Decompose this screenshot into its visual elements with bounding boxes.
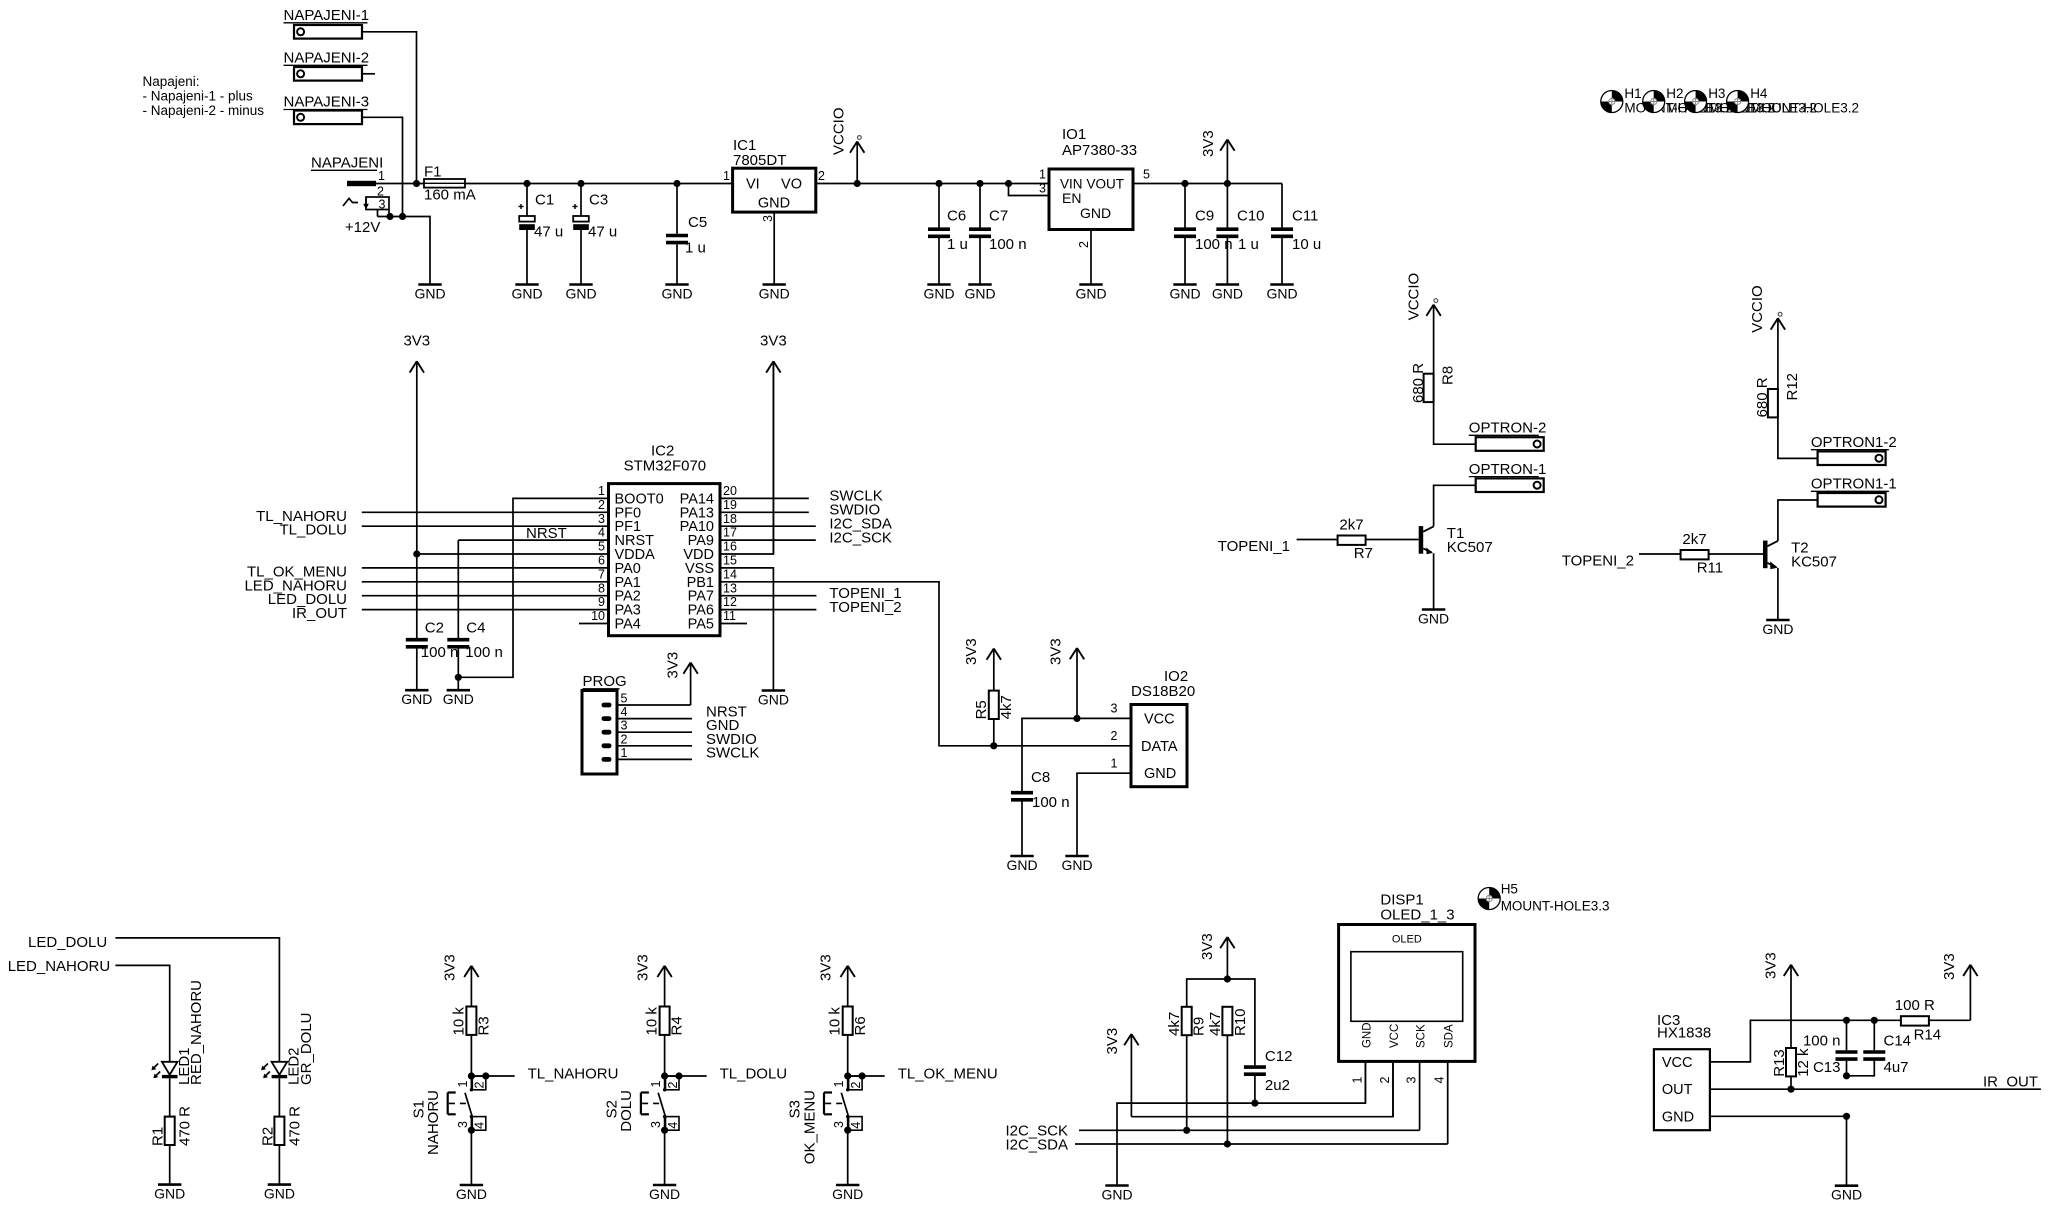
capacitor C11 <box>1281 184 1283 228</box>
resistor R2 <box>274 1117 284 1145</box>
svg-text:TL_DOLU: TL_DOLU <box>720 1066 788 1083</box>
wire SWCLK <box>720 497 809 499</box>
wire IO1 VOUT to 3V3 rail <box>1133 183 1282 185</box>
svg-text:KC507: KC507 <box>1791 554 1837 571</box>
svg-text:3V3: 3V3 <box>760 332 787 349</box>
IC1 pin 3 wire <box>773 212 775 284</box>
svg-text:2k7: 2k7 <box>1339 516 1363 533</box>
svg-text:NAPAJENI-2: NAPAJENI-2 <box>284 50 370 67</box>
receiver IC3 HX1838 box <box>1654 1049 1710 1130</box>
capacitor C9 <box>1184 184 1186 228</box>
junction C14-VCC <box>1871 1017 1878 1024</box>
svg-text:H3: H3 <box>1708 86 1725 101</box>
svg-text:C4: C4 <box>466 619 485 636</box>
junction main-C5 <box>673 180 680 187</box>
svg-text:VCCIO: VCCIO <box>1405 273 1422 321</box>
svg-text:GND: GND <box>1762 621 1793 637</box>
wire PROG pin5 to 3V3 <box>617 704 691 706</box>
wire T1 emitter to ground <box>1433 554 1435 610</box>
capacitor C1 <box>526 184 528 217</box>
svg-text:TL_NAHORU: TL_NAHORU <box>528 1066 619 1083</box>
svg-text:R2: R2 <box>259 1127 276 1146</box>
capacitor C10 <box>1226 184 1228 228</box>
junction switch pin3 <box>661 1127 668 1134</box>
svg-text:3: 3 <box>1039 181 1046 195</box>
svg-text:VCC: VCC <box>1662 1055 1693 1071</box>
wire R5 to DATA <box>993 719 995 746</box>
junction R9-SCK <box>1183 1127 1190 1134</box>
wire R9 to SCK <box>1186 1035 1188 1130</box>
supply 3V3 IC2 VDDA <box>403 332 430 554</box>
resistor R12 <box>1768 389 1778 417</box>
ground C7 <box>964 285 995 302</box>
wire TOPENI_2 from IC2 <box>720 609 816 611</box>
svg-text:100 n: 100 n <box>1032 794 1070 811</box>
svg-text:R11: R11 <box>1697 560 1723 577</box>
note Napajeni <box>143 74 265 118</box>
svg-text:5: 5 <box>621 692 628 706</box>
svg-text:GND: GND <box>661 285 692 301</box>
svg-text:3: 3 <box>621 719 628 733</box>
transistor T2 KC507 <box>1763 541 1778 570</box>
svg-text:GND: GND <box>414 285 445 301</box>
svg-text:C3: C3 <box>589 192 608 209</box>
svg-text:GND: GND <box>759 285 790 301</box>
DISP1 pin 2 stub <box>1392 1061 1394 1116</box>
supply 3V3 pullups <box>1199 933 1235 979</box>
wire fuse to IC1 <box>465 183 733 185</box>
DISP1 pin 3 stub <box>1419 1061 1421 1130</box>
svg-text:GND: GND <box>758 691 789 707</box>
resistor R6 <box>843 1007 853 1035</box>
svg-text:100 n: 100 n <box>1803 1032 1841 1049</box>
LED LED2 <box>261 1062 287 1079</box>
svg-text:4k7: 4k7 <box>1166 1012 1183 1036</box>
resistor R4 <box>660 1007 670 1035</box>
capacitor C7 <box>979 184 981 228</box>
svg-text:I2C_SDA: I2C_SDA <box>1005 1136 1068 1153</box>
svg-text:18: 18 <box>723 512 737 526</box>
wire PROG pin4 <box>617 718 692 720</box>
svg-text:8: 8 <box>598 581 605 595</box>
wire pullup top rail <box>1187 979 1255 1065</box>
svg-text:2: 2 <box>1378 1077 1392 1084</box>
transistor T1 KC507 <box>1419 526 1434 554</box>
svg-text:C6: C6 <box>947 208 966 225</box>
junction main-C3 <box>577 180 584 187</box>
svg-text:100 R: 100 R <box>1895 997 1935 1014</box>
wire LED2 to R2 <box>278 1078 280 1116</box>
wire BOOT0 to C4 junction <box>458 498 608 677</box>
DISP1 pin names <box>1361 1022 1455 1048</box>
wire GND down <box>1846 1116 1848 1185</box>
supply 3V3 R14 <box>1941 953 1978 1020</box>
svg-text:OLED: OLED <box>1392 934 1422 946</box>
svg-text:1: 1 <box>378 169 385 183</box>
wire VSS to ground <box>720 568 773 691</box>
wire PROG pin3 <box>617 731 692 733</box>
svg-text:12: 12 <box>723 595 737 609</box>
svg-text:2: 2 <box>1111 729 1118 743</box>
supply 3V3 PROG <box>665 652 698 705</box>
svg-text:7805DT: 7805DT <box>733 152 786 169</box>
wire OPTRON1-1 to T2 collector <box>1778 500 1818 541</box>
power jack sleeve symbol <box>343 199 358 207</box>
svg-text:1: 1 <box>598 484 605 498</box>
ground C2 <box>401 690 432 707</box>
svg-text:SWCLK: SWCLK <box>706 744 759 761</box>
svg-text:H5: H5 <box>1501 882 1518 897</box>
switch S2 body <box>641 1076 679 1130</box>
ground R1 <box>154 1185 185 1202</box>
svg-text:4: 4 <box>1433 1077 1447 1084</box>
supply 3V3 regulator output <box>1200 130 1235 183</box>
svg-text:3: 3 <box>598 512 605 526</box>
svg-text:GND: GND <box>832 1186 863 1202</box>
svg-text:2u2: 2u2 <box>1265 1077 1290 1094</box>
svg-text:OPTRON-1: OPTRON-1 <box>1469 461 1547 478</box>
IO1 pin names <box>1060 177 1124 222</box>
svg-text:R3: R3 <box>476 1016 493 1035</box>
ground C11 <box>1266 285 1297 302</box>
wire C4 to junction <box>457 649 459 691</box>
svg-text:16: 16 <box>723 540 737 554</box>
capacitor C12 <box>1244 1067 1266 1074</box>
connector OPTRON1-1 label <box>1811 476 1897 493</box>
svg-text:STM32F070: STM32F070 <box>624 457 707 474</box>
ground OLED <box>1101 1186 1132 1203</box>
fuse F1 <box>424 179 465 188</box>
junction vout-C9 <box>1181 180 1188 187</box>
svg-text:GND: GND <box>1266 285 1297 301</box>
wire R2 to ground <box>278 1145 280 1185</box>
IO1 pin 2 wire <box>1090 230 1092 285</box>
wire LED_DOLU to IC2 <box>362 595 609 597</box>
junction VDDA <box>413 550 420 557</box>
mount hole H3 <box>1685 91 1707 113</box>
ground S3 <box>832 1185 863 1202</box>
svg-text:H1: H1 <box>1624 86 1641 101</box>
svg-text:3V3: 3V3 <box>403 332 430 349</box>
svg-text:1: 1 <box>1350 1077 1364 1084</box>
svg-text:TOPENI_2: TOPENI_2 <box>1562 552 1634 569</box>
svg-text:47 u: 47 u <box>588 224 617 241</box>
svg-text:R10: R10 <box>1232 1008 1249 1036</box>
wire jack pins 2-3 to GND <box>388 210 390 217</box>
wire R14 to 3V3 <box>1929 1019 1971 1021</box>
junction R10-SDA <box>1224 1140 1231 1147</box>
ground R2 <box>264 1185 295 1202</box>
wire IO2 GND pin <box>1077 773 1131 856</box>
wire C10 to ground <box>1226 238 1228 285</box>
svg-text:2: 2 <box>377 185 384 199</box>
svg-text:11: 11 <box>723 609 736 623</box>
svg-text:C9: C9 <box>1195 208 1214 225</box>
svg-text:47 u: 47 u <box>534 224 563 241</box>
svg-text:C1: C1 <box>535 192 554 209</box>
connector OPTRON-2 <box>1476 437 1544 451</box>
svg-text:+12V: +12V <box>345 219 380 236</box>
wire R11 to T2 base <box>1709 553 1763 555</box>
IC2 pin 10 stub <box>579 623 609 625</box>
svg-text:3V3: 3V3 <box>1048 638 1065 665</box>
svg-text:19: 19 <box>723 498 737 512</box>
power jack NAPAJENI pin 1 pad <box>347 181 376 186</box>
junction GND-C13 <box>1843 1113 1850 1120</box>
svg-text:12 k: 12 k <box>1795 1048 1812 1077</box>
svg-text:680 R: 680 R <box>1754 377 1771 417</box>
junction C12-GND <box>1251 1100 1258 1107</box>
svg-text:GND: GND <box>649 1186 680 1202</box>
svg-text:R12: R12 <box>1784 373 1801 401</box>
svg-text:VCC: VCC <box>1389 1024 1401 1048</box>
svg-text:R14: R14 <box>1914 1026 1942 1043</box>
switch S3 body <box>824 1076 862 1130</box>
svg-text:- Napajeni-1 - plus: - Napajeni-1 - plus <box>143 89 254 104</box>
PROG pads <box>602 703 612 762</box>
capacitor C2 <box>406 640 428 647</box>
connector OPTRON1-1 <box>1818 493 1886 507</box>
svg-text:VI: VI <box>746 177 760 193</box>
svg-text:R9: R9 <box>1191 1017 1208 1036</box>
wire TOPENI_1 from IC2 <box>720 595 816 597</box>
svg-text:2: 2 <box>666 1082 680 1089</box>
wire VDD <box>720 361 773 554</box>
IC2 pin 11 stub <box>720 623 747 625</box>
junction R5-DATA <box>990 742 997 749</box>
svg-text:4: 4 <box>473 1122 487 1129</box>
PROG pin numbers <box>621 692 628 760</box>
svg-text:TL_OK_MENU: TL_OK_MENU <box>898 1066 998 1083</box>
wire R13 to OUT <box>1790 1076 1792 1089</box>
ground IO1 <box>1075 285 1106 302</box>
wire R6 to switch <box>847 1035 849 1076</box>
wire TOPENI_2 to R11 <box>1639 553 1681 555</box>
wire R4 to switch <box>664 1035 666 1076</box>
wire LED1 to R1 <box>169 1078 171 1116</box>
svg-text:C5: C5 <box>688 214 707 231</box>
svg-text:VCCIO: VCCIO <box>1749 285 1766 333</box>
svg-text:1: 1 <box>1111 756 1118 770</box>
svg-text:GND: GND <box>1831 1187 1862 1203</box>
ground IC3 <box>1831 1186 1862 1203</box>
wire C1 to ground <box>526 230 528 285</box>
svg-text:- Napajeni-2 - minus: - Napajeni-2 - minus <box>143 103 265 118</box>
svg-text:GND: GND <box>1006 857 1037 873</box>
svg-text:IR_OUT: IR_OUT <box>292 605 347 622</box>
svg-text:PA4: PA4 <box>615 617 641 633</box>
power jack switch box <box>366 197 389 210</box>
capacitor C5 <box>676 184 678 234</box>
svg-text:3: 3 <box>1405 1077 1419 1084</box>
svg-text:1: 1 <box>723 169 730 183</box>
IC2 right pin names <box>680 491 714 632</box>
ground T2 <box>1762 620 1793 637</box>
svg-text:NAPAJENI-1: NAPAJENI-1 <box>284 7 370 24</box>
wire C8 to ground <box>1021 802 1023 857</box>
junction R3-net <box>468 1072 475 1079</box>
wire C2 to ground <box>416 649 418 691</box>
wire NAPAJENI-2 stub <box>362 73 375 75</box>
svg-text:3: 3 <box>1111 702 1118 716</box>
svg-text:14: 14 <box>723 567 737 581</box>
junction main-C7 <box>976 180 983 187</box>
svg-text:C2: C2 <box>425 619 444 636</box>
connector NAPAJENI-1 <box>294 25 362 39</box>
junction switch pin2 <box>675 1072 682 1079</box>
wire NAPAJENI-3 to GND net <box>362 117 403 216</box>
svg-text:3: 3 <box>456 1121 470 1128</box>
wire VDDA to IC2 pin5 <box>417 553 609 555</box>
svg-text:5: 5 <box>598 540 605 554</box>
ground jack <box>414 285 445 302</box>
svg-text:3V3: 3V3 <box>665 652 682 679</box>
svg-text:GND: GND <box>758 196 790 212</box>
wire C7 to ground <box>979 238 981 285</box>
svg-text:GND: GND <box>154 1185 185 1201</box>
svg-text:10 u: 10 u <box>1292 236 1321 253</box>
capacitor C4 <box>447 640 469 647</box>
supply 3V3 R3 <box>441 954 478 1006</box>
svg-text:160 mA: 160 mA <box>424 187 476 204</box>
supply 3V3 R4 <box>635 954 672 1006</box>
svg-text:DATA: DATA <box>1141 739 1178 755</box>
connector NAPAJENI-1 label <box>284 7 370 24</box>
wire T2 emitter to ground <box>1777 568 1779 620</box>
svg-text:2: 2 <box>598 498 605 512</box>
svg-text:2: 2 <box>818 169 825 183</box>
svg-text:C10: C10 <box>1237 208 1265 225</box>
svg-text:4: 4 <box>598 526 605 540</box>
svg-text:EN: EN <box>1062 190 1081 206</box>
svg-text:C11: C11 <box>1292 208 1318 225</box>
DISP1 pin numbers <box>1350 1077 1446 1084</box>
ground T1 <box>1418 610 1449 627</box>
wire 3V3 to C2 <box>416 554 418 638</box>
svg-text:LED_NAHORU: LED_NAHORU <box>8 958 111 975</box>
wire TL_DOLU to IC2 <box>362 525 609 527</box>
junction R6-net <box>844 1072 851 1079</box>
junction vout-C10 <box>1224 180 1231 187</box>
wire R10 to SDA <box>1226 1035 1228 1144</box>
svg-text:1 u: 1 u <box>1238 236 1259 253</box>
resistor R13 <box>1786 1048 1796 1076</box>
svg-text:9: 9 <box>598 595 605 609</box>
svg-text:4: 4 <box>666 1122 680 1129</box>
svg-text:680 R: 680 R <box>1410 363 1427 403</box>
svg-text:C8: C8 <box>1031 769 1050 786</box>
svg-text:4: 4 <box>621 705 628 719</box>
svg-text:1: 1 <box>832 1081 846 1088</box>
svg-text:TOPENI_2: TOPENI_2 <box>829 599 901 616</box>
supply 3V3 IC2 VDD <box>760 332 787 554</box>
label PROG <box>583 673 627 690</box>
mount hole H5 <box>1478 888 1500 910</box>
ground C3 <box>565 285 596 302</box>
IC2 left pin names <box>615 491 664 632</box>
svg-text:3V3: 3V3 <box>635 954 652 981</box>
power jack pin numbers <box>377 169 386 212</box>
supply 3V3 R5 <box>963 638 1001 690</box>
svg-text:H2: H2 <box>1666 86 1683 101</box>
svg-text:C12: C12 <box>1265 1048 1293 1065</box>
svg-text:H4: H4 <box>1750 86 1768 101</box>
wire C12 to GND rail <box>1254 1076 1256 1103</box>
svg-text:KC507: KC507 <box>1447 539 1493 556</box>
supply 3V3 OLED VCC <box>1104 1028 1139 1117</box>
switch S1 body <box>448 1076 486 1130</box>
svg-text:20: 20 <box>723 484 737 498</box>
svg-text:OK_MENU: OK_MENU <box>801 1090 818 1164</box>
DISP1 pin 1 stub <box>1364 1061 1366 1103</box>
svg-text:3V3: 3V3 <box>818 954 835 981</box>
ground C10 <box>1212 285 1243 302</box>
junction R13-OUT <box>1787 1086 1794 1093</box>
supply VCCIO main <box>831 107 865 183</box>
capacitor C8 <box>1011 793 1033 800</box>
wire S3 to ground <box>847 1130 849 1185</box>
svg-text:C13: C13 <box>1813 1059 1841 1076</box>
svg-text:R5: R5 <box>973 700 990 719</box>
svg-text:NAHORU: NAHORU <box>425 1090 442 1155</box>
wire S1 to ground <box>470 1130 472 1185</box>
svg-text:TOPENI_1: TOPENI_1 <box>1218 538 1290 555</box>
svg-text:TL_DOLU: TL_DOLU <box>279 522 347 539</box>
junction main-EN <box>1005 180 1012 187</box>
svg-text:PA5: PA5 <box>688 617 714 633</box>
wire TL_NAHORU net <box>471 1075 514 1077</box>
svg-text:GND: GND <box>1075 285 1106 301</box>
svg-text:NAPAJENI: NAPAJENI <box>311 155 383 172</box>
svg-text:LED_DOLU: LED_DOLU <box>28 934 107 951</box>
svg-text:10: 10 <box>591 609 605 623</box>
svg-text:NRST: NRST <box>526 525 567 542</box>
svg-text:RED_NAHORU: RED_NAHORU <box>188 980 205 1085</box>
svg-text:GND: GND <box>1169 285 1200 301</box>
svg-text:GND: GND <box>1080 205 1111 221</box>
junction 3V3-R10 <box>1224 975 1231 982</box>
svg-text:1: 1 <box>649 1081 663 1088</box>
svg-text:GND: GND <box>1361 1022 1373 1048</box>
wire IC3 VCC <box>1710 1020 1901 1062</box>
svg-text:3: 3 <box>832 1121 846 1128</box>
wire TL_DOLU net <box>665 1075 707 1077</box>
svg-text:OUT: OUT <box>1662 1082 1693 1098</box>
supply 3V3 R13 <box>1763 952 1799 1048</box>
resistor R3 <box>466 1007 476 1035</box>
ground C1 <box>511 285 542 302</box>
svg-text:1: 1 <box>456 1081 470 1088</box>
wire OLED GND rail <box>1117 1061 1365 1185</box>
wire I2C_SCK rail <box>1079 1129 1420 1131</box>
svg-text:GND: GND <box>964 285 995 301</box>
wire IC3 OUT to IR_OUT <box>1710 1088 2041 1090</box>
wire TL_NAHORU to IC2 <box>362 511 609 513</box>
svg-text:PROG: PROG <box>583 673 627 690</box>
svg-text:VCCIO: VCCIO <box>831 107 848 155</box>
ground S2 <box>649 1185 680 1202</box>
wire PROG pin1 <box>617 758 692 760</box>
resistor R1 <box>165 1117 175 1145</box>
display DISP1 OLED_1_3 box <box>1339 925 1475 1062</box>
svg-text:R8: R8 <box>1440 366 1457 385</box>
regulator IC1 7805DT <box>733 168 816 212</box>
svg-text:3V3: 3V3 <box>1941 953 1958 980</box>
svg-text:3: 3 <box>649 1121 663 1128</box>
svg-text:470 R: 470 R <box>286 1106 303 1146</box>
wire R12 to OPTRON1-2 <box>1778 417 1818 458</box>
wire OLED VCC rail <box>1131 1061 1393 1116</box>
